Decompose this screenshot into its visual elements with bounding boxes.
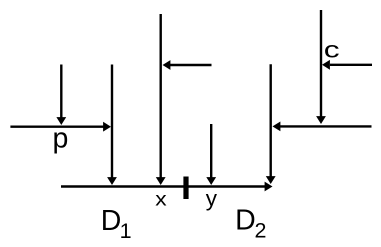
middle vertical arrow x (pointing down onto axis) (156, 14, 166, 185)
horizontal arrow p (pointing right into D1 line) (10, 122, 111, 132)
horizontal arrow into middle line (pointing left) (163, 60, 212, 70)
label c (324, 37, 340, 63)
main axis arrow (horizontal, pointing right) (61, 182, 273, 192)
svg-text:y: y (206, 186, 218, 211)
horizontal arrow c (pointing left into c vertical line) (322, 60, 372, 70)
svg-text:c: c (324, 37, 340, 63)
svg-text:p: p (53, 122, 69, 154)
label x (155, 189, 167, 210)
vertical arrow y (pointing down onto axis) (206, 124, 216, 185)
D2 vertical arrow (pointing down onto axis) (266, 64, 276, 184)
svg-text:x: x (155, 189, 167, 210)
vertical arrow onto p line (pointing down) (56, 65, 66, 126)
vertical arrow c (pointing down onto right line) (316, 10, 326, 124)
horizontal arrow into D2 line (pointing left) (273, 122, 372, 132)
D1 vertical arrow (pointing down onto axis) (107, 65, 117, 186)
tick mark on axis (183, 177, 188, 200)
